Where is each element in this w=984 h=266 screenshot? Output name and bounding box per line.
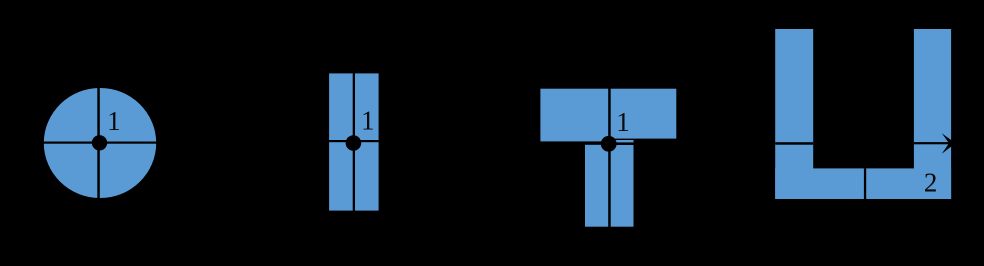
horizontal wire through circle — [42, 142, 158, 144]
svg-text:2: 2 — [924, 168, 938, 198]
U piece right column — [914, 29, 951, 199]
vertical wire through circle — [97, 86, 100, 200]
svg-text:1: 1 — [107, 106, 121, 136]
U piece bottom bar — [775, 168, 951, 199]
U piece left column — [775, 29, 813, 199]
wire across U left column — [775, 142, 813, 145]
arrowhead 2 (stealth) — [942, 133, 956, 154]
horizontal wire across T stem right — [611, 142, 634, 145]
T piece top bar left — [540, 89, 608, 142]
circle piece (roundabout) — [44, 88, 156, 198]
horizontal wire through domino — [329, 140, 379, 142]
T piece stem left — [585, 145, 608, 227]
arrow wire across U right column — [914, 142, 949, 144]
node dot 1 (domino) — [346, 135, 362, 151]
node dot 1 (circle) — [92, 135, 107, 150]
T piece stem right — [611, 140, 634, 227]
svg-text:1: 1 — [361, 105, 375, 135]
svg-text:1: 1 — [616, 107, 630, 137]
node dot 1 (T) — [601, 136, 617, 152]
T piece top bar right — [611, 89, 677, 139]
vertical wire through domino — [353, 73, 355, 210]
wire divider in U bottom bar — [864, 168, 866, 199]
straight piece (vertical domino) — [329, 73, 379, 210]
